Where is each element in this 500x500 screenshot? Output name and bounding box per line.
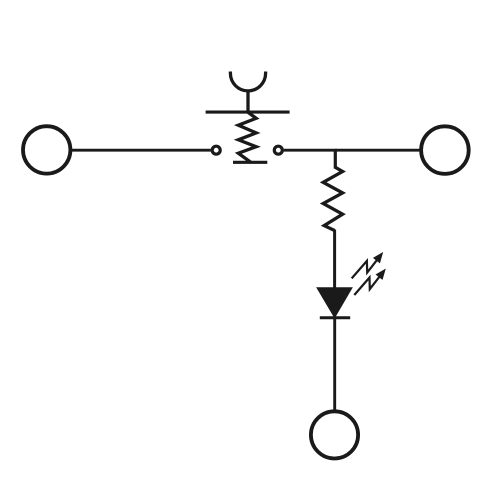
terminal J1 (left) <box>23 126 70 173</box>
wire switch right contact to node A <box>284 149 337 152</box>
pushbutton S1 base plate <box>233 161 267 164</box>
LED D1 cathode bar <box>320 316 350 319</box>
wire J1 to switch left contact <box>71 149 211 152</box>
LED D1 light arrow 1 shaft <box>352 259 378 279</box>
pushbutton S1 actuator cup <box>230 72 265 91</box>
wire node A to terminal J2 <box>335 149 421 152</box>
terminal J2 (right) <box>421 126 469 174</box>
wire LED D1 cathode to terminal J3 <box>333 316 336 412</box>
LED D1 light arrow 1 head <box>374 253 382 262</box>
LED D1 triangle (anode) <box>318 289 350 316</box>
LED D1 light arrow 2 shaft <box>354 276 380 296</box>
pushbutton S1 left contact pin <box>212 146 220 154</box>
pushbutton S1 actuator stem <box>246 91 249 112</box>
pushbutton S1 right contact pin <box>274 146 282 154</box>
pushbutton S1 return spring <box>238 112 256 162</box>
pushbutton S1 actuator bar <box>206 111 290 114</box>
LED D1 light arrow 2 head <box>377 270 385 279</box>
terminal J3 (bottom) <box>311 411 358 458</box>
wire resistor R1 to LED D1 anode <box>333 230 336 290</box>
wire node A down to resistor R1 <box>334 150 337 168</box>
resistor R1 zigzag <box>323 167 342 230</box>
